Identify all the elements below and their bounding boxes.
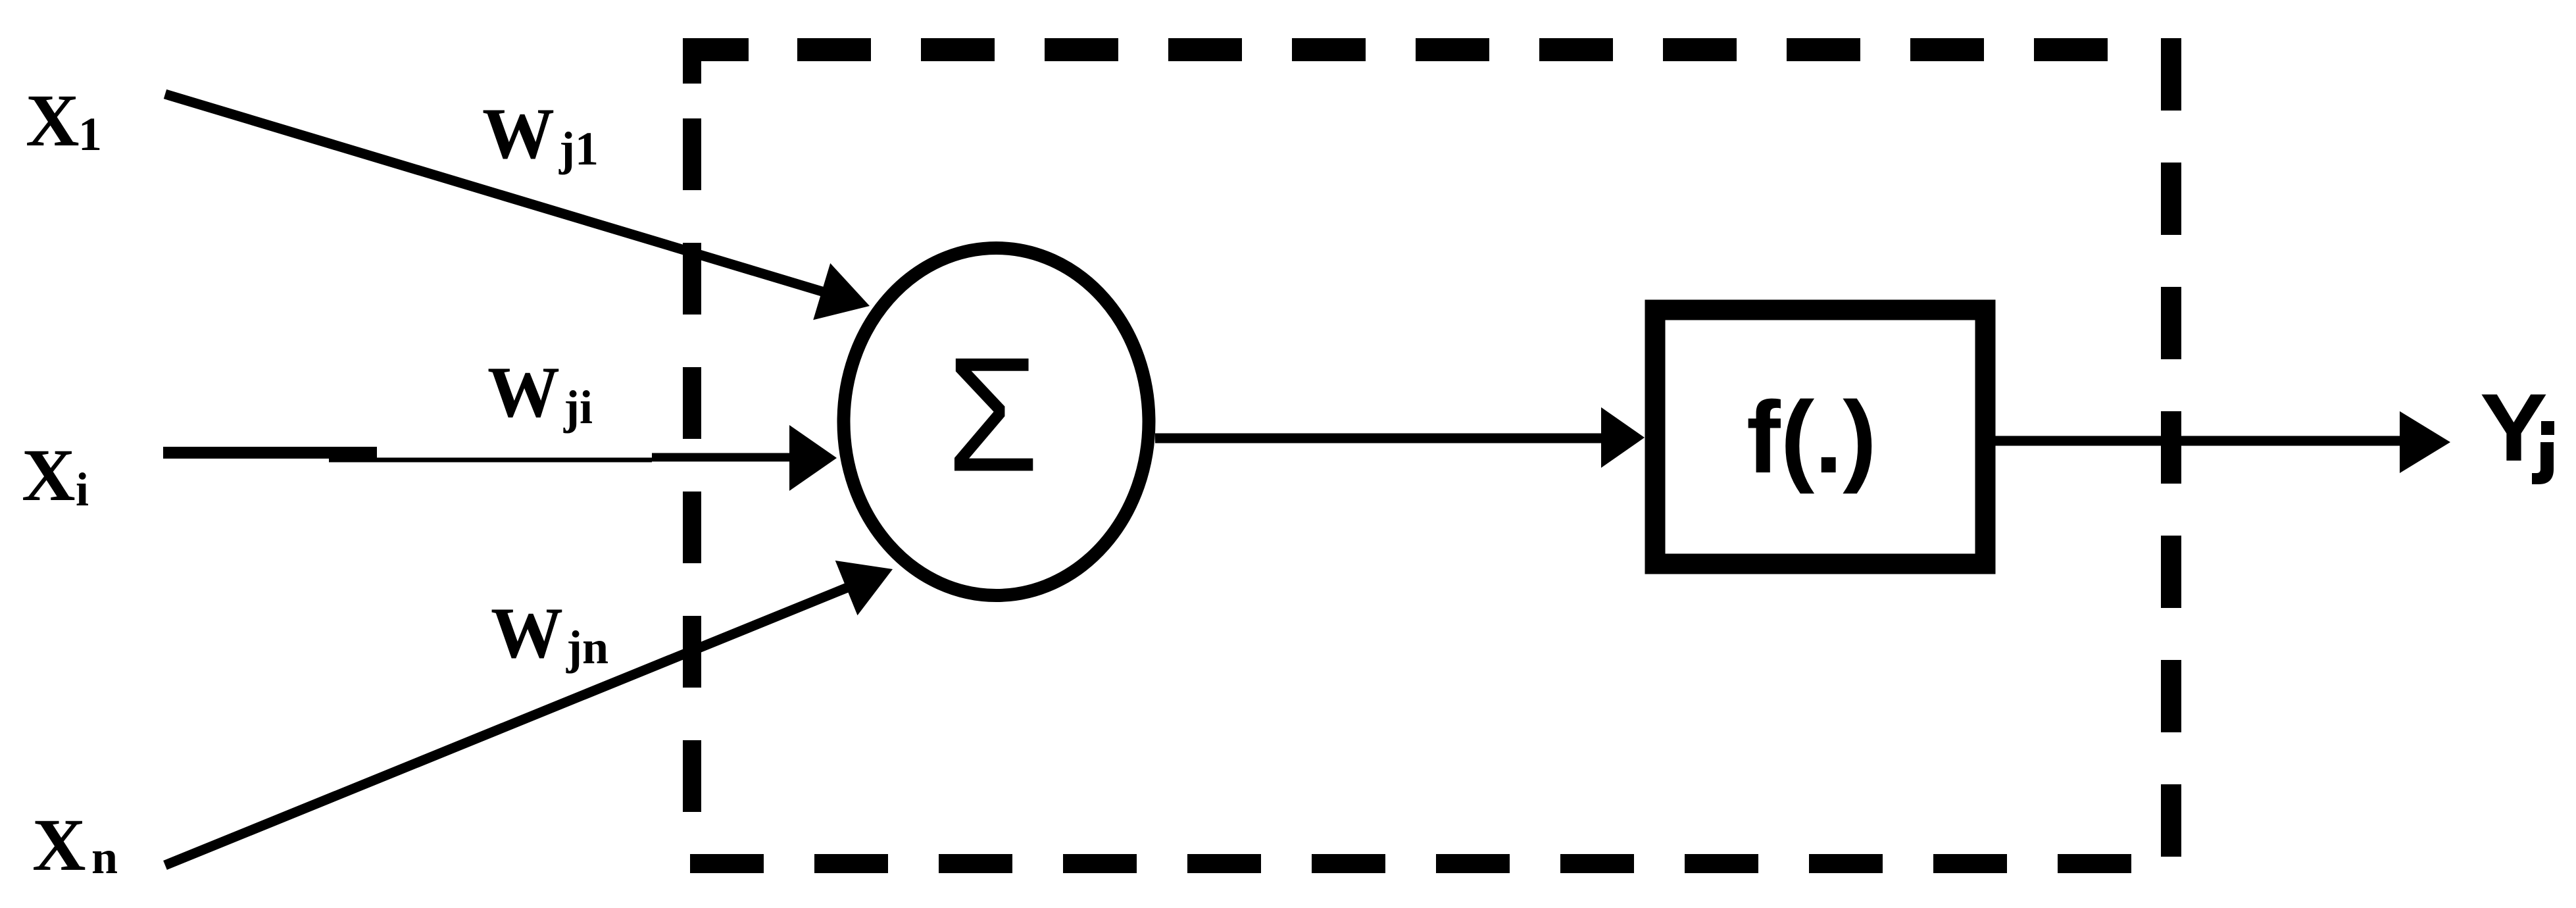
svg-text:jn: jn bbox=[566, 621, 608, 674]
activation label f(.) bbox=[1746, 380, 1877, 494]
svg-text:X: X bbox=[26, 80, 80, 162]
svg-text:ji: ji bbox=[563, 381, 593, 434]
svg-text:f(.): f(.) bbox=[1746, 380, 1877, 494]
svg-text:Y: Y bbox=[2480, 374, 2548, 481]
neuron boundary dashed box: left edge bbox=[683, 38, 701, 812]
svg-text:X: X bbox=[32, 804, 86, 886]
arrowhead Xi into summation bbox=[789, 425, 837, 491]
output label Yj bbox=[2480, 374, 2554, 484]
wire Xi input thick stub bbox=[163, 447, 377, 459]
weight label Wjn bbox=[491, 593, 608, 674]
arrowhead Xn into summation bbox=[835, 561, 893, 615]
summation node circle bbox=[844, 248, 1149, 595]
input label Xn bbox=[32, 804, 118, 886]
input label Xi bbox=[22, 434, 89, 517]
arrowhead X1 into summation bbox=[813, 263, 870, 320]
svg-text:W: W bbox=[482, 93, 555, 174]
arrowhead to output Yj bbox=[2400, 411, 2450, 473]
svg-text:j1: j1 bbox=[558, 122, 599, 175]
wire Xi input medium segment bbox=[652, 453, 795, 462]
wire summation to activation bbox=[1155, 434, 1605, 443]
svg-text:W: W bbox=[491, 593, 563, 673]
weight label Wji bbox=[487, 352, 593, 434]
arrowhead into activation box bbox=[1601, 407, 1645, 468]
svg-text:X: X bbox=[22, 434, 76, 517]
wire Xn input line bbox=[165, 588, 847, 865]
wire activation to output bbox=[1995, 436, 2404, 446]
activation function box bbox=[1655, 310, 1985, 564]
neuron boundary dashed box: top edge bbox=[683, 38, 2115, 61]
svg-text:1: 1 bbox=[78, 108, 102, 161]
neuron boundary dashed box: right edge bbox=[2161, 38, 2181, 857]
neuron boundary dashed box: bottom edge bbox=[690, 854, 2131, 873]
svg-text:Σ: Σ bbox=[947, 324, 1039, 505]
svg-text:W: W bbox=[487, 352, 560, 432]
wire X1 input line bbox=[165, 94, 824, 292]
svg-text:n: n bbox=[91, 831, 118, 884]
weight label Wj1 bbox=[482, 93, 599, 175]
summation symbol sigma bbox=[947, 324, 1039, 505]
wire Xi input thin segment bbox=[329, 458, 652, 463]
svg-text:i: i bbox=[76, 463, 89, 516]
input label X1 bbox=[26, 80, 102, 162]
